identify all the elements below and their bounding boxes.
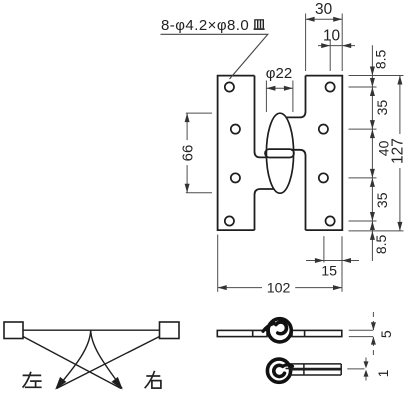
chain arrowheads — [370, 67, 375, 240]
swing curve to left arrow — [57, 330, 91, 388]
svg-text:φ22: φ22 — [266, 65, 292, 82]
side view 2 leaf hook — [283, 365, 293, 366]
svg-text:1: 1 — [375, 369, 391, 377]
swing diagram right jamb square — [160, 322, 180, 339]
dimension 15 — [306, 260, 359, 262]
swing curve to right arrow — [91, 330, 122, 388]
dimension 5 — [349, 312, 374, 355]
right dimension chain extension stubs — [349, 45, 404, 261]
svg-text:35: 35 — [374, 100, 390, 116]
dimension 66 left — [186, 113, 212, 193]
svg-text:10: 10 — [323, 27, 340, 44]
left leaf plate outline — [218, 76, 275, 231]
svg-text:8.5: 8.5 — [373, 49, 389, 69]
side view 2 knuckle ring — [267, 359, 290, 382]
svg-text:66: 66 — [179, 145, 196, 162]
swing straight line from right square — [57, 337, 160, 389]
swing diagram left jamb square — [4, 322, 23, 339]
side view 1 left bar — [217, 330, 267, 336]
svg-text:5: 5 — [378, 330, 394, 338]
side view 2 pin hole — [276, 368, 283, 375]
label left kanji (drawn strokes) — [23, 372, 42, 388]
dimension 1 — [347, 358, 366, 381]
dimension 10 top — [318, 40, 355, 71]
screw holes left plate — [225, 82, 240, 225]
side view 1 pin hole — [276, 325, 283, 332]
side view 1 right bar — [292, 330, 342, 336]
olive knuckle ellipse — [266, 113, 293, 193]
side view 2 upper leaf — [286, 364, 342, 375]
dimension 102 — [218, 287, 262, 289]
svg-text:35: 35 — [374, 192, 390, 208]
chain dimension line — [371, 45, 373, 261]
bottom extension lines — [218, 235, 342, 292]
svg-text:102: 102 — [267, 281, 291, 297]
dimension 127 — [399, 76, 401, 231]
side view 1 knuckle ring — [268, 319, 291, 342]
label right kanji (drawn strokes) — [145, 371, 161, 388]
right swing arrowhead — [112, 377, 126, 392]
swing diagram header line — [23, 329, 160, 331]
svg-text:8-φ4.2×φ8.0: 8-φ4.2×φ8.0 — [161, 17, 249, 34]
right leaf plate outline — [286, 76, 343, 231]
left swing arrowhead — [52, 377, 66, 392]
side view 1 leaf hook — [263, 323, 274, 331]
screw holes right plate — [319, 82, 335, 225]
swing straight line from left square — [23, 337, 121, 389]
svg-text:15: 15 — [321, 264, 337, 280]
svg-text:30: 30 — [315, 1, 332, 18]
knuckle middle band capsule — [265, 149, 294, 157]
svg-text:127: 127 — [390, 138, 407, 164]
dimension 30 top — [306, 14, 343, 72]
svg-text:8.5: 8.5 — [373, 234, 389, 254]
kanji sara (countersunk) drawn as strokes — [254, 20, 265, 29]
